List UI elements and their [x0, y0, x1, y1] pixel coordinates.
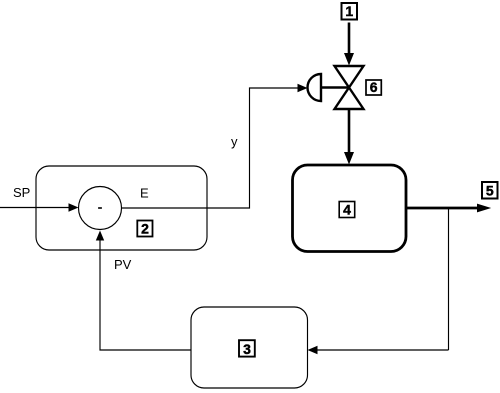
arrowhead into process block 4: [344, 152, 354, 165]
svg-text:E: E: [140, 186, 149, 201]
arrowhead output to 5: [477, 204, 491, 213]
arrowhead onto valve top: [344, 53, 354, 66]
box label 5: [482, 182, 498, 199]
minus sign inside summing junction: [98, 207, 102, 209]
arrowhead PV into summing junction bottom: [96, 231, 104, 241]
valve actuator (half-dome): [308, 74, 322, 101]
wire: SP setpoint input line: [0, 207, 70, 209]
control valve body: bottom triangle: [335, 88, 364, 110]
arrowhead into summing junction: [69, 203, 79, 211]
arrowhead into actuator: [298, 84, 308, 92]
svg-text:SP: SP: [13, 185, 30, 200]
wire: valve outlet down to process block: [348, 109, 351, 153]
svg-text:PV: PV: [114, 257, 132, 272]
box label 4: [339, 202, 355, 218]
wire: actuator stem to valve centre: [321, 86, 349, 88]
process block 4 (rounded rectangle): [293, 165, 407, 252]
box label 1: [342, 3, 358, 20]
box label 2: [137, 221, 152, 237]
svg-text:6: 6: [370, 79, 378, 95]
wire: process output line: [406, 207, 478, 210]
svg-text:4: 4: [343, 202, 351, 218]
svg-text:2: 2: [141, 221, 149, 237]
svg-text:1: 1: [345, 3, 353, 19]
measurement block 3 (rounded rectangle): [191, 307, 308, 388]
box label 3: [239, 340, 255, 356]
wire: error signal E from summing junction up to valve actuator: [122, 88, 299, 208]
wire: block 3 output to PV feedback (left then up): [100, 240, 191, 350]
controller block (rounded rectangle around summing junction): [36, 166, 207, 250]
svg-text:y: y: [231, 134, 238, 149]
summing junction circle: [79, 187, 122, 230]
box label 6: [366, 80, 381, 95]
wire: signal from box 1 down to valve: [348, 23, 351, 55]
wire: feedback into block 3: [317, 349, 449, 351]
svg-text:5: 5: [486, 183, 494, 199]
control valve body: top triangle: [335, 66, 364, 88]
svg-text:3: 3: [243, 341, 251, 357]
arrowhead into block 3 right side: [308, 346, 318, 354]
wire: feedback tap dropping down from output: [448, 208, 450, 350]
